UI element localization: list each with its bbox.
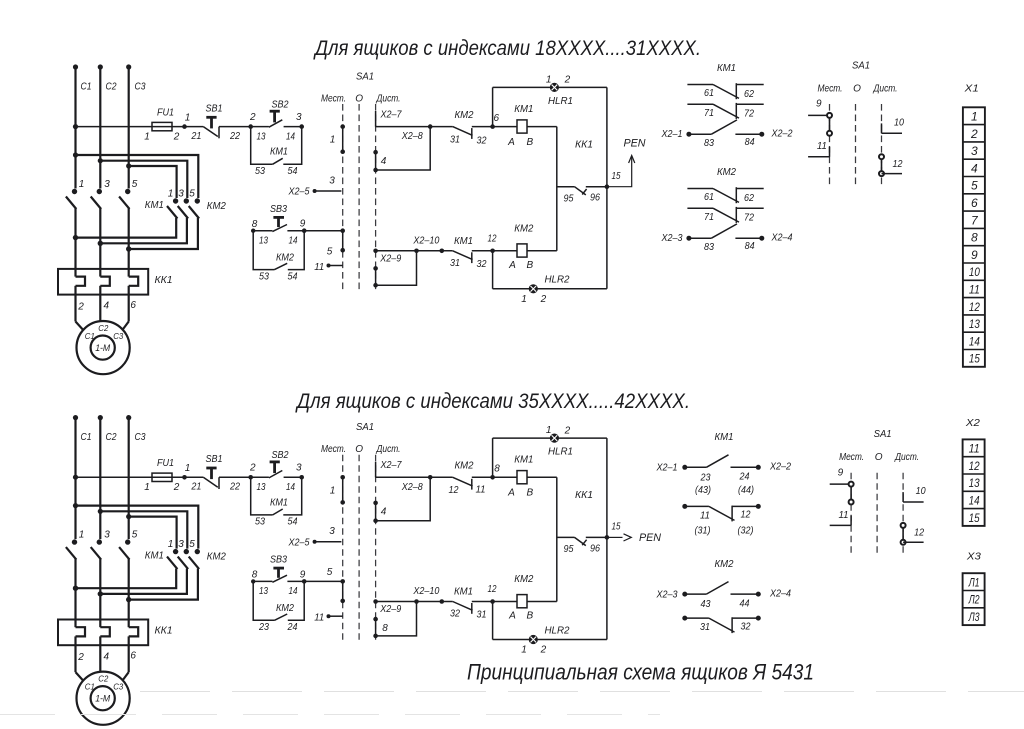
aux contact 11-12 (КМ1, NC) (682, 504, 761, 522)
label 2 (node) (249, 112, 256, 123)
svg-text:62: 62 (744, 89, 754, 100)
svg-text:14: 14 (286, 482, 295, 493)
aux contact 83-84 (КМ2, NO) (711, 224, 761, 238)
caption: Принципиальная схема ящиков Я 5431 (467, 660, 814, 685)
SA1 contact 4 (Дист) (373, 150, 378, 172)
wire HLR2 rail (493, 288, 607, 290)
svg-text:23: 23 (258, 622, 269, 633)
pin label 11 (SA1) (314, 613, 324, 624)
wire feed C3 to KM2 terminal 1 (129, 517, 177, 549)
svg-text:71: 71 (704, 212, 714, 223)
svg-text:22: 22 (229, 482, 240, 493)
svg-text:11: 11 (969, 442, 980, 456)
terminal X2-7 tick (375, 462, 377, 478)
terminal Х2–2 lead (759, 128, 793, 139)
svg-text:С1: С1 (85, 331, 95, 341)
svg-text:1: 1 (79, 179, 85, 190)
SA1 lead 11 (open) (808, 147, 829, 157)
svg-text:КМ1: КМ1 (454, 235, 473, 247)
svg-text:1: 1 (330, 485, 336, 496)
motor terminal labels C1 C2 C3 (85, 674, 124, 692)
svg-text:6: 6 (971, 196, 978, 210)
terminal labels A B (KM2 coil) (508, 611, 533, 622)
terminal strip Х3 (963, 573, 985, 625)
svg-text:4: 4 (381, 156, 387, 167)
label 1 (node) (185, 113, 191, 124)
thermal contact KK1 95-96 (NC) (557, 535, 609, 545)
svg-text:SB3: SB3 (270, 555, 287, 566)
contactor KM1 power contacts 1-2 3-4 5-6 (66, 189, 130, 249)
svg-text:HLR1: HLR1 (548, 95, 573, 107)
svg-text:SA1: SA1 (874, 428, 892, 440)
wire node 9 to SA1 (304, 580, 343, 582)
label KK1 (power) (155, 274, 173, 286)
terminal labels A B (KM1 coil) (507, 488, 533, 499)
wire SB1 to node 2 (219, 475, 253, 480)
svg-text:14: 14 (286, 131, 295, 142)
SA1 contact 12 (Дист closed) (879, 154, 902, 176)
label KM2 (power) (207, 200, 226, 212)
svg-text:Х1: Х1 (964, 82, 979, 94)
svg-text:КМ2: КМ2 (455, 460, 474, 472)
svg-text:23: 23 (700, 472, 711, 483)
label KM2 (coil) (514, 573, 533, 585)
svg-text:8: 8 (252, 219, 258, 230)
wire feed C1 to KM2 terminal 5 (76, 506, 199, 549)
svg-text:1: 1 (521, 294, 527, 305)
pin label 1 (SA1) (330, 135, 336, 146)
svg-text:1: 1 (79, 530, 85, 541)
svg-text:12: 12 (893, 159, 903, 170)
SA1 lead 10 (open) (882, 123, 903, 133)
label KM1 (coil) (514, 454, 533, 466)
svg-text:32: 32 (477, 136, 487, 147)
SA1 diagram column Мест (dashed) (850, 473, 852, 555)
svg-text:31: 31 (450, 134, 460, 145)
svg-text:11: 11 (839, 510, 849, 521)
svg-text:6: 6 (130, 300, 136, 311)
label KM1 (aux seal-in) (270, 497, 288, 508)
SA1 contact 4 (Дист) (373, 501, 378, 523)
svg-text:1: 1 (185, 113, 191, 124)
svg-text:Х2–2: Х2–2 (771, 128, 793, 139)
svg-text:О: О (355, 444, 363, 455)
svg-text:61: 61 (704, 88, 714, 99)
svg-text:HLR2: HLR2 (545, 624, 570, 636)
svg-text:SA1: SA1 (356, 70, 374, 82)
wire X2-8 bypass loop (376, 127, 431, 170)
label C3 (135, 432, 146, 443)
label КМ1 (aux contact block) (717, 62, 736, 74)
terminal X2-5 lead (313, 540, 342, 544)
label 1 (node) (185, 463, 191, 474)
label SA1 (selector switch) (356, 421, 374, 433)
svg-text:Х2–7: Х2–7 (380, 460, 402, 471)
contact KM2 12-11 (NC interlock, upper rung) (430, 475, 495, 490)
pin label 9 (SA1 diagram) (816, 99, 822, 110)
svg-text:6: 6 (494, 113, 500, 124)
terminal X2-5 lead (313, 189, 342, 193)
pin labels 13 14 (SB3) (259, 236, 298, 247)
pin label 8 (SA1) (382, 623, 388, 634)
label KM1 (power) (145, 550, 164, 562)
label 1-M (motor) (95, 343, 110, 353)
wire node to HLR1 rail (492, 438, 494, 477)
label KM2 (coil) (514, 222, 533, 234)
svg-text:2: 2 (564, 75, 571, 86)
terminal strip Х2 (963, 439, 985, 526)
svg-text:HLR2: HLR2 (545, 274, 570, 286)
svg-text:43: 43 (701, 599, 711, 610)
wire X2-7 to KM2 contact (376, 475, 433, 480)
label SB3 (270, 555, 287, 566)
svg-text:2: 2 (540, 645, 547, 656)
wire feed C3 to KM2 terminal 1 (129, 166, 177, 198)
wire KM2 contact 2 return to phase A (73, 569, 176, 591)
pushbutton SB3 (NO start reverse) (251, 217, 304, 233)
svg-text:Для ящиков с индексами 18ХХХХ.: Для ящиков с индексами 18ХХХХ....31ХХХХ. (313, 36, 701, 60)
svg-text:С1: С1 (81, 432, 92, 443)
label KM1 (interlock) (454, 586, 473, 598)
pin label 15 (PEN node) (612, 171, 621, 182)
auxiliary contact KM2 seal-in (253, 228, 306, 269)
svg-text:2: 2 (173, 131, 180, 142)
pin label 9 (SA1 diagram) (838, 467, 844, 478)
svg-text:1: 1 (144, 131, 150, 142)
svg-text:Х2–3: Х2–3 (661, 233, 683, 244)
label KK1 (contact) (575, 138, 593, 150)
pin labels 95 96 (KK1) (564, 543, 601, 555)
svg-text:Х2–5: Х2–5 (288, 537, 310, 548)
svg-text:В: В (526, 260, 533, 271)
title: Для ящиков с индексами 35ХХХХ.....42ХХХХ. (295, 389, 690, 413)
wire KM2 contact 2 return to phase A (73, 218, 176, 240)
svg-text:9: 9 (300, 219, 306, 230)
pin labels 11 12 (КМ1) (700, 510, 751, 522)
svg-text:24: 24 (739, 472, 750, 483)
pin labels 23 24 (KM2 aux) (258, 622, 298, 633)
svg-text:PEN: PEN (639, 532, 661, 544)
svg-text:Х2–1: Х2–1 (656, 463, 678, 474)
svg-text:1: 1 (521, 645, 527, 656)
svg-text:С3: С3 (135, 82, 146, 93)
svg-text:Х2–7: Х2–7 (380, 110, 402, 121)
wire phases into thermal relay (76, 238, 129, 269)
svg-text:53: 53 (255, 166, 265, 177)
svg-text:14: 14 (289, 236, 298, 247)
scan artifact faint line 1 (140, 691, 1024, 693)
label 12 (node) (488, 584, 497, 595)
pin label 15 (PEN node) (612, 522, 621, 533)
label FU1 (157, 458, 174, 469)
coil KM1 (493, 471, 557, 484)
pin labels 1 2 (HLR1) (546, 75, 571, 86)
svg-text:КМ1: КМ1 (145, 199, 164, 211)
svg-text:А: А (508, 611, 516, 622)
contactor KM2 power contacts (167, 198, 200, 218)
terminal lead 11 (SA1 Мест) (327, 614, 343, 618)
svg-text:(31): (31) (695, 525, 711, 536)
svg-text:21: 21 (191, 482, 202, 493)
SA1 column Мест (dashed) (342, 455, 344, 644)
svg-text:84: 84 (745, 137, 755, 148)
svg-text:4: 4 (104, 651, 110, 662)
label KM2 (interlock) (455, 460, 474, 472)
pin labels 12 11 (KM2) (449, 485, 486, 496)
label 3 (X2-5 pin) (329, 526, 335, 537)
label X2-10 (413, 586, 440, 597)
svg-text:13: 13 (969, 317, 980, 331)
svg-text:84: 84 (745, 241, 755, 252)
svg-text:14: 14 (289, 586, 298, 597)
wire node 12 to HLR2 rail (492, 251, 494, 289)
svg-text:С2: С2 (98, 323, 108, 333)
svg-text:8: 8 (971, 231, 978, 245)
label KM2 (power) (207, 551, 226, 563)
wire phase C1 vertical (73, 64, 78, 188)
svg-text:Мест.: Мест. (818, 84, 843, 95)
pin label 11 (SA1) (314, 262, 324, 273)
lamp HLR1 (550, 83, 558, 91)
svg-text:1-М: 1-М (95, 343, 110, 353)
auxiliary contact KM1 53-54 (seal-in) (251, 477, 302, 515)
svg-text:В: В (526, 488, 533, 499)
svg-text:Х2–9: Х2–9 (379, 604, 401, 615)
label 2 (node) (249, 463, 256, 474)
svg-text:Мест.: Мест. (321, 94, 346, 105)
svg-text:12: 12 (449, 485, 459, 496)
pin labels 31 32 (KM2) (450, 134, 487, 146)
pin labels 1 3 5 (KM2) (168, 539, 196, 550)
svg-text:54: 54 (288, 271, 298, 282)
auxiliary contact KM1 53-54 (seal-in) (251, 127, 302, 165)
contact KM2 31-32 (NC interlock, upper rung) (430, 124, 495, 139)
svg-text:Х2–2: Х2–2 (769, 462, 791, 473)
svg-text:Дист.: Дист. (376, 444, 401, 455)
pushbutton SB1 (NC stop) (203, 117, 219, 138)
svg-text:8: 8 (494, 464, 500, 475)
thermal relay KK1 heaters box (58, 269, 148, 295)
wire right rail vertical (606, 438, 608, 639)
svg-text:SB1: SB1 (206, 454, 223, 465)
SA1 column Дист (dashed) (375, 104, 377, 293)
svg-text:КМ2: КМ2 (276, 603, 294, 614)
svg-text:32: 32 (741, 621, 751, 632)
svg-text:С2: С2 (106, 432, 117, 443)
terminal Х2–3 lead (661, 233, 712, 244)
svg-text:96: 96 (590, 193, 600, 204)
pin labels 31 32 (KM1) (450, 258, 487, 270)
terminal X2-7 tick (375, 111, 377, 127)
svg-text:2: 2 (540, 294, 547, 305)
svg-text:С3: С3 (135, 432, 146, 443)
svg-text:КМ1: КМ1 (514, 103, 533, 115)
svg-text:Л3: Л3 (968, 610, 980, 624)
svg-text:72: 72 (744, 213, 754, 224)
wire FU1 to SB1 (172, 475, 203, 480)
aux contact 71-72 (КМ1, NC) (687, 103, 763, 119)
SA1 column О (dashed) (358, 455, 360, 644)
wire HLR2 rail (493, 639, 607, 641)
aux contact 61-62 (КМ1, NC) (687, 83, 763, 99)
svg-text:13: 13 (259, 236, 268, 247)
svg-text:24: 24 (287, 622, 298, 633)
svg-text:5: 5 (971, 179, 978, 193)
pin label 8 (SB3) (252, 570, 258, 581)
svg-text:С3: С3 (113, 682, 123, 692)
svg-text:21: 21 (191, 131, 202, 142)
net PEN (arrow up) (607, 137, 646, 186)
svg-text:11: 11 (700, 510, 710, 521)
svg-text:5: 5 (327, 567, 333, 578)
svg-text:62: 62 (744, 193, 754, 204)
label C2 (106, 432, 117, 443)
svg-text:3: 3 (104, 530, 110, 541)
svg-text:С1: С1 (81, 82, 92, 93)
terminal strip Х1 (963, 107, 985, 367)
SA1 diagram column Мест (dashed) (829, 104, 831, 186)
svg-text:9: 9 (838, 467, 844, 478)
svg-text:1: 1 (168, 189, 174, 200)
wire coils common vertical (556, 477, 558, 601)
label C2 (106, 82, 117, 93)
svg-text:83: 83 (704, 242, 714, 253)
svg-text:11: 11 (314, 613, 324, 624)
label Х3 (966, 551, 981, 563)
wire X2-8 bypass loop (376, 477, 431, 520)
svg-text:8: 8 (382, 623, 388, 634)
svg-text:15: 15 (612, 522, 621, 533)
svg-text:3: 3 (104, 179, 110, 190)
svg-text:96: 96 (590, 543, 600, 554)
lamp HLR1 (550, 434, 558, 442)
label КМ2 (aux contact block) (715, 558, 734, 570)
pushbutton SB2 (NO start) (251, 111, 302, 127)
wire KM2 contact 6 return to phase C (126, 569, 198, 603)
svg-text:FU1: FU1 (157, 108, 174, 119)
wire X2-7 to KM2 contact (376, 124, 433, 129)
svg-text:(32): (32) (738, 525, 754, 536)
label 8 (node) (494, 464, 500, 475)
contact KM1 interlock (NC, lower rung) (417, 599, 495, 614)
aux contact 83-84 (КМ1, NO) (711, 120, 761, 134)
svg-text:1: 1 (546, 425, 552, 436)
SA1 contact 1 (Мест) (340, 124, 345, 154)
SA1 column Мест (dashed) (342, 104, 344, 293)
wire phases into thermal relay (76, 588, 129, 619)
svg-text:10: 10 (894, 118, 904, 129)
svg-text:SA1: SA1 (852, 60, 870, 72)
terminal labels A B (KM2 coil) (508, 260, 533, 271)
SA1 contact 12 (Дист closed) (901, 523, 924, 545)
svg-text:95: 95 (564, 194, 574, 205)
svg-text:13: 13 (969, 476, 980, 490)
pin labels 1 3 5 (KM1) (79, 530, 138, 541)
wires KK1 outputs 2 4 6 to motor (76, 645, 129, 681)
SA1 contact 5 (Мест) (340, 228, 345, 252)
wire KM2 contact 6 return to phase C (126, 218, 198, 252)
SA1 column Дист (dashed) (375, 455, 377, 644)
pin label 10 (SA1 diagram) (894, 118, 904, 129)
svg-text:Х2–8: Х2–8 (401, 131, 423, 142)
pin label 4 (SA1) (381, 507, 387, 518)
svg-text:Дист.: Дист. (873, 84, 898, 95)
svg-text:КМ1: КМ1 (514, 454, 533, 466)
svg-text:5: 5 (132, 179, 138, 190)
svg-text:4: 4 (104, 301, 110, 312)
terminal labels A B (KM1 coil) (507, 137, 533, 148)
svg-text:13: 13 (259, 586, 268, 597)
label SB2 (272, 450, 289, 461)
svg-text:10: 10 (969, 265, 980, 279)
svg-text:31: 31 (700, 622, 710, 633)
svg-text:31: 31 (477, 610, 487, 621)
label X2-9 (379, 253, 401, 264)
svg-text:О: О (355, 94, 363, 105)
svg-text:31: 31 (450, 258, 460, 269)
svg-text:FU1: FU1 (157, 458, 174, 469)
label C1 (81, 82, 92, 93)
pin labels 1 2 (HLR2) (521, 294, 546, 305)
label КМ1 (aux contact block) (715, 431, 734, 443)
lamp HLR2 (529, 285, 537, 293)
svg-text:КМ1: КМ1 (270, 497, 288, 508)
label HLR2 (545, 624, 570, 636)
pin labels 21 22 (SB1) (191, 482, 241, 493)
fuse FU1 (152, 122, 172, 130)
svg-text:54: 54 (288, 166, 298, 177)
svg-text:КК1: КК1 (575, 138, 593, 150)
coil KM2 (493, 595, 557, 608)
motor terminal labels C1 C2 C3 (85, 323, 124, 341)
terminal Х2–1 lead (661, 129, 712, 140)
svg-text:5: 5 (132, 530, 138, 541)
SA1 lead 10 (open) (903, 492, 924, 502)
svg-text:Х2–3: Х2–3 (656, 590, 678, 601)
pin labels 71 72 (КМ2) (704, 212, 754, 223)
svg-text:КМ1: КМ1 (717, 62, 736, 74)
contactor KM2 power contacts (167, 549, 200, 569)
pin labels 53 54 (KM1 aux) (255, 166, 298, 177)
svg-text:(44): (44) (738, 485, 754, 496)
terminal X2-9 contact on Дист column (373, 617, 378, 638)
pin labels 53 54 (KM1 aux) (255, 517, 298, 528)
svg-text:Дист.: Дист. (894, 452, 919, 463)
svg-text:53: 53 (259, 271, 269, 282)
svg-text:КК1: КК1 (155, 624, 173, 636)
label SB1 (206, 104, 223, 115)
pin label 1 (SA1) (330, 485, 336, 496)
label X2-7 (380, 110, 402, 121)
svg-text:КМ2: КМ2 (514, 222, 533, 234)
terminal Х2–2 lead (756, 462, 792, 473)
wire phase C3 vertical (126, 64, 131, 188)
pin labels 13 14 (SB3) (259, 586, 298, 597)
svg-text:9: 9 (300, 569, 306, 580)
svg-text:С2: С2 (106, 82, 117, 93)
SA1 contact 1 (Мест) (340, 475, 345, 505)
wire SB1 to node 2 (219, 124, 253, 129)
pin label 9 (node) (300, 219, 306, 230)
svg-text:1: 1 (971, 110, 978, 124)
aux contact 43-44 (КМ2, NO) (706, 582, 756, 595)
svg-text:С3: С3 (113, 331, 123, 341)
svg-text:32: 32 (450, 609, 460, 620)
pin labels 1 3 5 (KM1) (79, 179, 138, 190)
pin labels 95 96 (KK1) (564, 193, 601, 205)
pin labels 1 2 (FU1) (144, 131, 180, 142)
svg-text:О: О (875, 452, 883, 463)
